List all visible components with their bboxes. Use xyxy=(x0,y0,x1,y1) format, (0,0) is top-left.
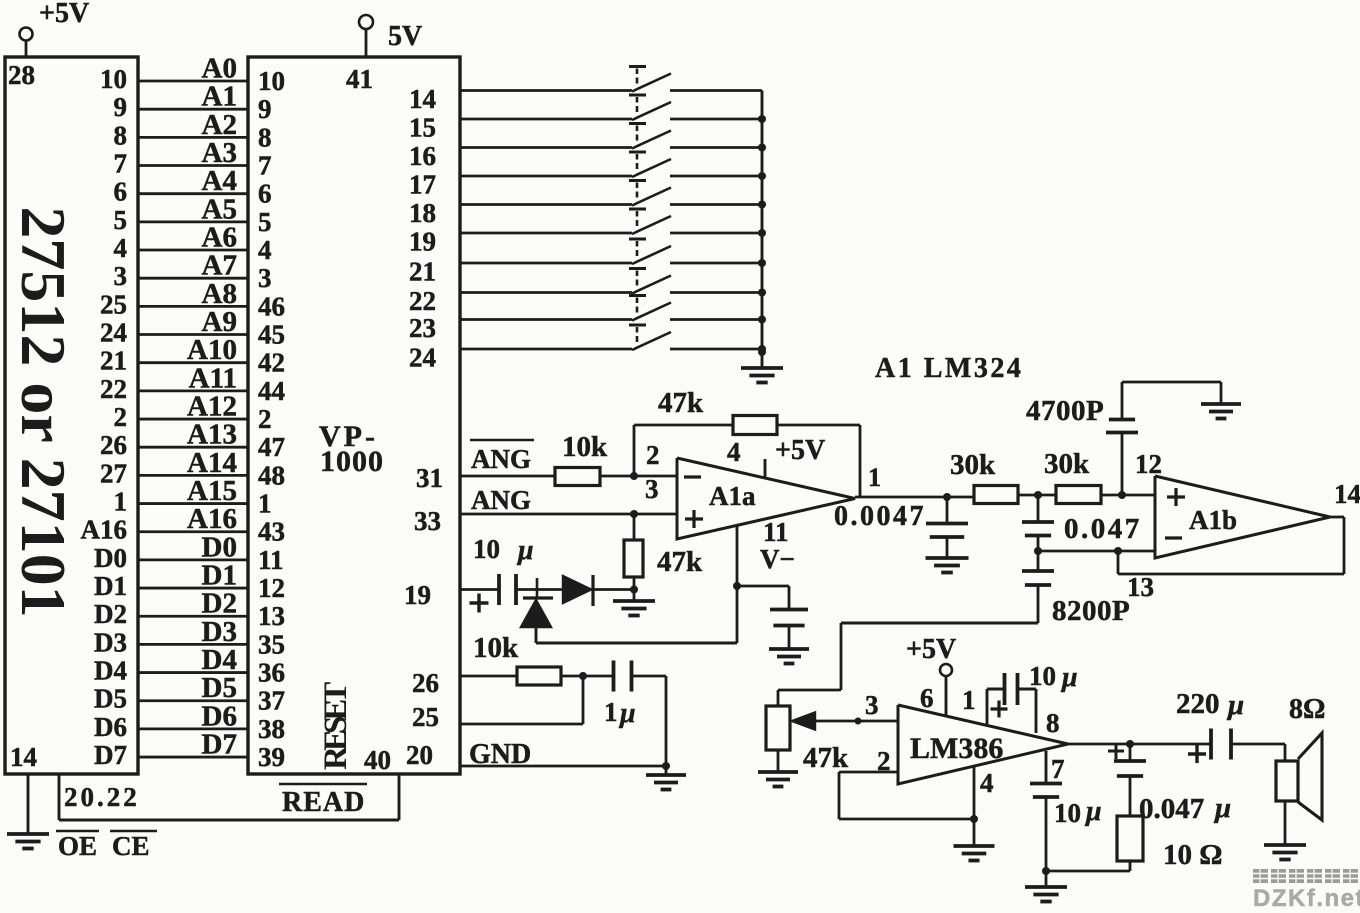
svg-text:44: 44 xyxy=(258,376,285,406)
svg-text:1: 1 xyxy=(258,489,272,519)
svg-text:4: 4 xyxy=(114,233,128,263)
svg-text:17: 17 xyxy=(409,170,436,200)
svg-text:8Ω: 8Ω xyxy=(1289,694,1325,725)
svg-text:35: 35 xyxy=(258,629,285,659)
svg-text:1: 1 xyxy=(962,685,976,715)
svg-text:15: 15 xyxy=(409,113,436,143)
svg-text:30k: 30k xyxy=(950,449,996,481)
svg-text:14: 14 xyxy=(10,742,37,772)
svg-text:7: 7 xyxy=(258,151,272,181)
svg-text:25: 25 xyxy=(100,289,127,319)
svg-text:D6: D6 xyxy=(94,712,127,742)
svg-text:20: 20 xyxy=(406,740,433,770)
svg-text:A1 LM324: A1 LM324 xyxy=(875,353,1023,384)
svg-text:23: 23 xyxy=(409,313,436,343)
svg-text:2: 2 xyxy=(258,404,272,434)
svg-text:27: 27 xyxy=(100,458,127,488)
svg-text:38: 38 xyxy=(258,714,285,744)
svg-text:1: 1 xyxy=(868,463,881,492)
svg-text:220: 220 xyxy=(1176,688,1220,720)
svg-text:21: 21 xyxy=(409,257,436,287)
svg-text:3: 3 xyxy=(645,474,659,504)
svg-text:41: 41 xyxy=(346,64,373,94)
svg-text:2: 2 xyxy=(114,402,128,432)
svg-text:9: 9 xyxy=(258,94,272,124)
svg-text:DZKf.net: DZKf.net xyxy=(1253,885,1360,908)
svg-text:ANG: ANG xyxy=(471,485,531,515)
svg-text:5: 5 xyxy=(258,207,272,237)
svg-text:D7: D7 xyxy=(94,740,127,770)
svg-text:8: 8 xyxy=(1046,708,1060,738)
svg-text:1: 1 xyxy=(604,697,618,727)
svg-text:D5: D5 xyxy=(94,684,127,714)
svg-text:μ: μ xyxy=(618,698,636,729)
svg-text:READ: READ xyxy=(282,787,365,818)
svg-text:D4: D4 xyxy=(94,656,127,686)
svg-text:0.047: 0.047 xyxy=(1139,793,1204,825)
svg-text:16: 16 xyxy=(409,141,436,171)
svg-text:11: 11 xyxy=(763,517,789,547)
svg-text:21: 21 xyxy=(100,346,127,376)
svg-text:31: 31 xyxy=(416,463,443,493)
svg-text:6: 6 xyxy=(114,177,128,207)
svg-text:D0: D0 xyxy=(94,543,127,573)
svg-text:8: 8 xyxy=(258,122,272,152)
svg-text:6: 6 xyxy=(258,179,272,209)
svg-text:10: 10 xyxy=(1029,661,1056,691)
svg-text:ANG: ANG xyxy=(471,444,531,474)
svg-text:18: 18 xyxy=(409,198,436,228)
svg-text:45: 45 xyxy=(258,320,285,350)
svg-text:48: 48 xyxy=(258,460,285,490)
svg-text:A1a: A1a xyxy=(709,481,756,511)
svg-text:A1b: A1b xyxy=(1189,505,1237,535)
svg-text:μ: μ xyxy=(1060,662,1078,693)
svg-text:LM386: LM386 xyxy=(910,732,1003,765)
svg-text:11: 11 xyxy=(258,545,284,575)
svg-text:14: 14 xyxy=(409,84,436,114)
svg-text:10: 10 xyxy=(473,534,500,564)
svg-text:43: 43 xyxy=(258,517,285,547)
svg-text:3: 3 xyxy=(258,263,272,293)
svg-text:42: 42 xyxy=(258,348,285,378)
svg-text:47k: 47k xyxy=(658,387,704,419)
svg-text:40: 40 xyxy=(364,745,391,775)
svg-text:μ: μ xyxy=(1226,689,1244,721)
svg-text:33: 33 xyxy=(414,506,441,536)
svg-text:10: 10 xyxy=(1054,798,1081,828)
svg-text:27512 or 27101: 27512 or 27101 xyxy=(8,206,79,617)
svg-text:8: 8 xyxy=(114,120,128,150)
svg-text:28: 28 xyxy=(8,60,35,90)
svg-text:8200P: 8200P xyxy=(1052,595,1130,627)
svg-text:0.047: 0.047 xyxy=(1064,513,1142,545)
svg-text:OE: OE xyxy=(58,831,97,861)
svg-text:4: 4 xyxy=(727,437,741,467)
svg-text:D1: D1 xyxy=(94,571,127,601)
svg-text:6: 6 xyxy=(920,683,934,713)
svg-text:+5V: +5V xyxy=(39,0,89,29)
svg-text:D7: D7 xyxy=(202,729,237,761)
svg-text:22: 22 xyxy=(409,286,436,316)
svg-text:14: 14 xyxy=(1334,479,1360,509)
svg-text:V−: V− xyxy=(760,544,795,574)
svg-text:2: 2 xyxy=(646,440,660,470)
svg-text:22: 22 xyxy=(100,374,127,404)
svg-text:30k: 30k xyxy=(1044,448,1090,480)
svg-text:20.22: 20.22 xyxy=(64,782,140,812)
svg-text:39: 39 xyxy=(258,742,285,772)
svg-text:CE: CE xyxy=(112,831,150,861)
svg-text:7: 7 xyxy=(1051,754,1065,784)
svg-text:26: 26 xyxy=(412,668,439,698)
svg-text:+5V: +5V xyxy=(906,634,956,665)
svg-text:1000: 1000 xyxy=(320,445,384,478)
svg-text:4: 4 xyxy=(258,235,272,265)
svg-text:0.0047: 0.0047 xyxy=(834,501,926,532)
svg-text:10 Ω: 10 Ω xyxy=(1163,839,1222,871)
svg-text:μ: μ xyxy=(1213,792,1231,824)
svg-text:24: 24 xyxy=(409,343,436,373)
svg-text:1: 1 xyxy=(114,487,128,517)
svg-text:36: 36 xyxy=(258,658,285,688)
svg-text:4700P: 4700P xyxy=(1026,395,1104,427)
svg-text:19: 19 xyxy=(409,227,436,257)
svg-text:37: 37 xyxy=(258,686,285,716)
svg-text:10: 10 xyxy=(100,64,127,94)
svg-text:13: 13 xyxy=(1127,572,1154,602)
svg-text:μ: μ xyxy=(516,535,534,566)
svg-text:47k: 47k xyxy=(803,742,849,774)
svg-text:9: 9 xyxy=(114,92,128,122)
svg-text:24: 24 xyxy=(100,318,127,348)
svg-text:12: 12 xyxy=(1135,449,1162,479)
svg-text:5V: 5V xyxy=(388,21,422,52)
svg-text:47k: 47k xyxy=(657,546,703,578)
svg-text:10k: 10k xyxy=(473,632,519,664)
svg-text:μ: μ xyxy=(1084,796,1102,827)
svg-text:A16: A16 xyxy=(81,515,128,545)
svg-text:3: 3 xyxy=(865,690,879,720)
svg-text:3: 3 xyxy=(114,261,128,291)
svg-text:RESET: RESET xyxy=(318,682,354,770)
svg-text:D3: D3 xyxy=(94,627,127,657)
svg-text:4: 4 xyxy=(980,768,994,798)
svg-text:5: 5 xyxy=(114,205,128,235)
svg-text:46: 46 xyxy=(258,291,285,321)
svg-text:19: 19 xyxy=(404,580,431,610)
svg-text:+5V: +5V xyxy=(775,435,825,466)
svg-text:10: 10 xyxy=(258,66,285,96)
svg-text:25: 25 xyxy=(412,702,439,732)
svg-text:26: 26 xyxy=(100,430,127,460)
svg-text:7: 7 xyxy=(114,149,128,179)
svg-text:12: 12 xyxy=(258,573,285,603)
svg-text:D2: D2 xyxy=(94,599,127,629)
svg-text:13: 13 xyxy=(258,601,285,631)
svg-text:10k: 10k xyxy=(562,431,608,463)
svg-text:47: 47 xyxy=(258,432,285,462)
